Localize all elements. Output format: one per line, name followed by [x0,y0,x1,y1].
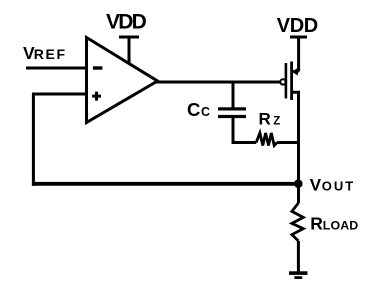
node VOUT label [310,175,355,194]
wire op-amp output to gate of M1 [156,81,281,84]
svg-text:VDD: VDD [277,15,318,37]
svg-text:VDD: VDD [106,10,147,33]
resistor R_Z [256,133,277,146]
resistor R_LOAD [292,203,303,241]
transistor M1 drain stub [292,92,299,142]
transistor M1 channel bar [290,62,293,101]
op-amp U1 plus input marker [92,92,101,101]
svg-text:C: C [187,99,200,120]
node VOUT junction dot [294,179,303,188]
resistor R_Z label [259,110,281,129]
wire feedback vertical [32,94,35,186]
wire drain rail to VOUT node [297,143,300,204]
svg-text:Z: Z [273,116,280,128]
transistor M1 gate bubble [280,79,285,84]
power VDD symbol (M1 source) [290,37,307,72]
svg-text:C: C [201,105,210,119]
op-amp U1 [87,38,158,123]
transistor M1 source stub [292,70,299,73]
wire RLOAD to ground [297,241,300,272]
resistor R_LOAD label [310,214,358,234]
svg-text:V: V [310,175,322,194]
svg-text:REF: REF [34,46,67,62]
transistor M1 source arrow [292,68,298,76]
wire feedback horizontal to VOUT node [32,182,299,186]
op-amp U1 minus input marker [93,66,103,69]
wire VREF to op-amp inverting input [26,67,87,70]
wire op-amp noninverting input [32,93,87,96]
capacitor C_C [218,107,246,118]
capacitor C_C label [187,99,210,120]
transistor M1 gate bar [285,63,288,98]
transistor M1 (PMOS) [280,62,298,143]
wire Cc tap from output [232,82,235,108]
svg-text:R: R [310,214,323,234]
svg-text:R: R [259,110,271,129]
power VDD symbol (op-amp supply) [119,37,139,64]
svg-text:OUT: OUT [322,178,355,193]
wire Cc bottom to Rz [233,118,256,143]
node VREF label [23,43,67,63]
ground [289,271,308,279]
svg-text:LOAD: LOAD [323,219,359,233]
wire Rz to drain rail [277,141,298,144]
